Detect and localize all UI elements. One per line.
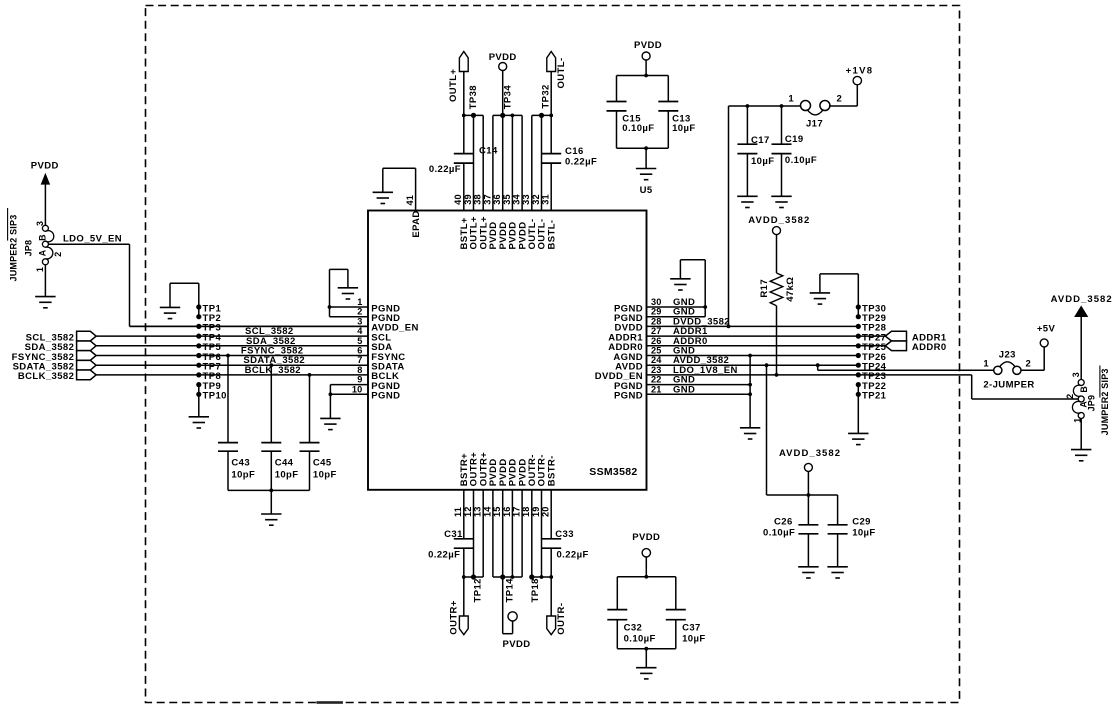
svg-text:4: 4 (357, 326, 363, 336)
svg-text:7: 7 (357, 355, 362, 365)
wire AVDD_3582 branch (765, 363, 838, 497)
svg-text:PVDD: PVDD (489, 52, 517, 63)
test point TP38 (468, 85, 479, 118)
test point TP32 (539, 84, 552, 118)
capacitor C43 10pF (218, 354, 255, 491)
ground U5 (636, 148, 656, 196)
U1 pin 19 OUTR- (531, 454, 548, 577)
svg-text:40: 40 (453, 194, 463, 205)
power PVDD (top, pin 36) (489, 52, 517, 116)
power AVDD_3582 (C26 block) (779, 448, 841, 495)
jumper JP9 JUMPER2 SIP3 (1065, 366, 1110, 436)
wire OUTR+ bus (pins 11,12,13) (462, 575, 483, 579)
connector input SDA_3582 (25, 341, 96, 353)
svg-text:C31: C31 (444, 529, 463, 540)
svg-text:SSM3582: SSM3582 (589, 466, 637, 478)
wire PVDD bus (pins 14-17) (493, 575, 522, 579)
svg-text:28: 28 (651, 316, 662, 326)
svg-text:10pF: 10pF (231, 469, 255, 480)
test point TP23 (856, 371, 887, 382)
wire C43-C45 ground bus (228, 489, 310, 526)
svg-text:LDO_5V_EN: LDO_5V_EN (63, 233, 122, 244)
power +1V8 (829, 66, 873, 107)
svg-text:41: 41 (405, 195, 415, 206)
U1 pin 17 PVDD (512, 458, 529, 577)
svg-text:9: 9 (357, 375, 362, 385)
U1 pin 8 BCLK (96, 365, 399, 382)
connector ADDR0 (885, 341, 946, 353)
svg-text:OUTL+: OUTL+ (448, 69, 459, 102)
svg-text:EPAD: EPAD (411, 210, 422, 237)
U1 pin 3 AVDD_EN (130, 316, 419, 333)
svg-text:U5: U5 (640, 185, 653, 196)
U1 pin 18 OUTR- (521, 454, 538, 577)
svg-text:2: 2 (1026, 359, 1032, 370)
svg-text:PVDD: PVDD (632, 532, 660, 543)
svg-text:29: 29 (651, 307, 662, 317)
svg-text:12: 12 (463, 506, 473, 517)
U1 pin 38 OUTL+ (473, 115, 490, 249)
wire AVDD to J23 (816, 363, 994, 370)
svg-text:8: 8 (357, 365, 362, 375)
capacitor C33 (541, 529, 588, 561)
svg-text:23: 23 (651, 365, 662, 375)
svg-text:TP38: TP38 (468, 85, 479, 109)
U1 pin 13 OUTR+ (473, 452, 490, 577)
svg-text:18: 18 (521, 506, 531, 517)
ground JP9 pin1 (1071, 419, 1091, 461)
ground C32 block (636, 649, 656, 679)
capacitor C29 10uF (827, 495, 875, 578)
U1 pin 23 DVDD_EN / net LDO_1V8_EN (595, 365, 972, 382)
svg-text:PGND: PGND (614, 391, 643, 402)
power PVDD (U5 block) (634, 40, 662, 76)
svg-text:34: 34 (512, 193, 522, 204)
svg-text:OUTL-: OUTL- (556, 57, 567, 88)
svg-text:25: 25 (651, 346, 662, 356)
U1 pin 39 OUTL+ (463, 115, 480, 249)
svg-text:TP14: TP14 (505, 578, 516, 603)
wire LDO_5V_EN JP8 to pin3 (48, 244, 368, 326)
wire OUTL- bus (pins 33,32,31) (532, 114, 553, 118)
svg-text:B: B (1079, 386, 1089, 393)
svg-text:14: 14 (482, 506, 492, 517)
ground bracket pins 9,10 PGND (320, 385, 340, 430)
svg-text:C37: C37 (682, 623, 701, 634)
svg-text:2: 2 (357, 307, 362, 317)
connector input SDATA_3582 (13, 360, 97, 372)
U1 pin 12 OUTR+ (463, 452, 480, 577)
svg-text:19: 19 (531, 506, 541, 517)
test point TP18 (529, 574, 541, 602)
figure number on bottom border (316, 701, 343, 704)
U1 pin 34 PVDD (512, 115, 529, 249)
U1 pin 1 PGND (330, 297, 401, 314)
svg-text:BSTL-: BSTL- (546, 220, 557, 250)
power AVDD_3582 (JP9 arrow) (1051, 294, 1113, 380)
test point TP34 (500, 85, 513, 118)
U1 pin 41 EPAD (405, 168, 422, 237)
U1 pin 10 PGND (330, 384, 400, 401)
test point TP6 (196, 352, 221, 363)
power AVDD_3582 (R17 top) (748, 215, 810, 273)
ground bracket pins 29,30 GND (670, 260, 707, 317)
svg-text:1: 1 (983, 359, 989, 370)
U1 pin 26 ADDR0 / net ADDR0 (608, 336, 885, 353)
svg-text:32: 32 (531, 194, 541, 205)
U1 pin 9 PGND (330, 375, 400, 392)
svg-text:J23: J23 (999, 350, 1016, 361)
svg-text:15: 15 (492, 506, 502, 517)
EPAD ground (373, 168, 416, 203)
svg-text:C43: C43 (231, 458, 250, 469)
svg-text:PVDD: PVDD (634, 40, 662, 51)
U1 pin 2 PGND (330, 307, 401, 324)
U1 pin 36 PVDD (492, 115, 509, 249)
ground bracket for TP1/TP2 (160, 283, 199, 318)
svg-text:ADDR0: ADDR0 (912, 342, 947, 353)
svg-text:38: 38 (473, 194, 483, 205)
svg-text:36: 36 (492, 194, 502, 205)
svg-text:1: 1 (357, 297, 362, 307)
svg-text:0.22µF: 0.22µF (429, 164, 461, 175)
wire TP9-TP10 link and ground (189, 385, 209, 428)
U1 pin 24 AVDD / net AVDD_3582 (615, 355, 858, 372)
capacitor C45 10pF (300, 373, 337, 490)
connector input FSYNC_3582 (12, 351, 96, 363)
connector ADDR1 (885, 331, 947, 343)
svg-text:GND: GND (673, 384, 695, 395)
jumper JP8 JUMPER2 SIP3 (8, 208, 63, 282)
connector input SCL_3582 (26, 331, 96, 343)
U1 pin 21 PGND / net GND (614, 384, 750, 401)
svg-text:0.22µF: 0.22µF (557, 550, 589, 561)
capacitor C44 10pF (261, 363, 298, 490)
test point TP1 (196, 303, 221, 314)
wire OUTL+ bus (pins 40,39,38) (462, 114, 483, 118)
svg-text:C26: C26 (774, 516, 793, 527)
test point TP10 (196, 391, 227, 402)
capacitor C37 10uF (666, 577, 706, 649)
svg-text:10µF: 10µF (751, 156, 774, 167)
svg-text:JP9: JP9 (1086, 395, 1096, 412)
svg-text:10pF: 10pF (313, 469, 337, 480)
capacitor C17 10uF (737, 104, 774, 207)
U1 pin 37 PVDD (482, 115, 499, 249)
svg-text:16: 16 (502, 506, 512, 517)
svg-text:1: 1 (35, 267, 45, 272)
svg-text:5: 5 (357, 336, 362, 346)
wire C32/C37 buses (617, 575, 676, 651)
jumper J23 2-JUMPER (983, 350, 1034, 391)
svg-text:+5V: +5V (1037, 324, 1056, 335)
svg-text:A: A (38, 249, 48, 256)
svg-text:JP8: JP8 (24, 240, 34, 257)
svg-text:0.10µF: 0.10µF (763, 528, 795, 539)
svg-text:39: 39 (463, 194, 473, 205)
svg-text:PVDD: PVDD (503, 639, 531, 650)
svg-text:22: 22 (651, 375, 662, 385)
svg-text:13: 13 (473, 506, 483, 517)
svg-text:JUMPER2 SIP3: JUMPER2 SIP3 (1100, 368, 1110, 435)
svg-text:6: 6 (357, 346, 362, 356)
svg-text:17: 17 (512, 506, 522, 517)
svg-text:C16: C16 (565, 146, 584, 157)
svg-text:J17: J17 (806, 119, 823, 130)
svg-text:PGND: PGND (371, 391, 400, 402)
svg-text:37: 37 (482, 194, 492, 205)
test point TP27 (856, 332, 887, 343)
svg-text:33: 33 (521, 194, 531, 205)
svg-text:2: 2 (1065, 393, 1075, 398)
svg-text:20: 20 (541, 506, 551, 517)
wire TP30-TP29 link (857, 307, 859, 317)
power PVDD (C32 block) (632, 532, 660, 577)
svg-text:C14: C14 (479, 146, 498, 157)
svg-text:C45: C45 (313, 458, 332, 469)
test point TP12 (471, 574, 484, 602)
wire PVDD bus (pins 37-34) (493, 114, 522, 118)
svg-text:26: 26 (651, 336, 662, 346)
connector input BCLK_3582 (18, 370, 96, 382)
svg-text:31: 31 (541, 194, 551, 205)
connector OUTL- (547, 52, 567, 116)
svg-text:0.10µF: 0.10µF (785, 155, 817, 166)
test point TP3 (196, 323, 221, 334)
svg-text:+1V8: +1V8 (846, 66, 874, 77)
svg-text:3: 3 (1071, 372, 1081, 377)
U1 pin 33 OUTL- (521, 115, 538, 249)
U1 pin 27 ADDR1 / net ADDR1 (608, 326, 885, 343)
test point TP9 (196, 381, 221, 392)
test point TP4 (196, 332, 221, 343)
connector OUTR+ (449, 577, 469, 635)
svg-text:JUMPER2 SIP3: JUMPER2 SIP3 (8, 215, 18, 282)
svg-text:1: 1 (788, 94, 794, 105)
wire U5 buses (617, 74, 669, 151)
svg-text:BCLK_3582: BCLK_3582 (18, 371, 74, 382)
svg-text:AVDD_3582: AVDD_3582 (748, 215, 810, 226)
test point TP8 (196, 371, 221, 382)
capacitor C15 0.10uF (607, 76, 655, 149)
svg-text:TP34: TP34 (502, 85, 513, 110)
resistor R17 47k (759, 273, 796, 377)
svg-text:24: 24 (651, 355, 662, 365)
U1 pin 11 BSTR+ (453, 453, 470, 577)
U1 pin 4 SCL (96, 326, 392, 343)
capacitor C13 10uF (658, 76, 695, 149)
svg-text:TP10: TP10 (203, 391, 227, 402)
dashed border frame (146, 6, 960, 703)
svg-text:11: 11 (453, 507, 463, 517)
svg-text:0.22µF: 0.22µF (565, 157, 597, 168)
capacitor C19 0.10uF (771, 104, 817, 207)
svg-text:TP12: TP12 (473, 578, 484, 602)
svg-text:3: 3 (357, 316, 362, 326)
svg-text:AVDD_3582: AVDD_3582 (779, 448, 841, 459)
wire OUTR- bus (pins 18,19,20) (532, 575, 553, 579)
wire DVDD_3582 vertical (pin 28 to C17/C19/J17) (727, 106, 802, 328)
U1 pin 35 PVDD (502, 115, 519, 249)
test point TP2 (196, 313, 221, 324)
svg-text:BCLK_3582: BCLK_3582 (245, 365, 301, 376)
U1 pin 14 PVDD (482, 458, 499, 577)
op-amp U1 SSM3582 body (368, 211, 647, 490)
svg-text:C19: C19 (785, 134, 804, 145)
ground JP8 pin1 (35, 265, 55, 308)
svg-text:21: 21 (651, 384, 662, 394)
test point TP7 (196, 362, 221, 373)
U1 pin 15 PVDD (492, 458, 509, 577)
svg-text:BSTR-: BSTR- (546, 455, 557, 486)
test point TP21 (856, 391, 887, 402)
svg-text:47kΩ: 47kΩ (785, 277, 796, 302)
U1 pin 31 BSTL- (541, 115, 558, 249)
wire TP22-TP21 link and ground (848, 385, 868, 445)
svg-text:OUTR-: OUTR- (556, 603, 567, 635)
U1 pin 29 PGND / net GND (614, 307, 705, 324)
svg-text:10µF: 10µF (852, 528, 875, 539)
U1 pin 30 PGND / net GND (614, 297, 705, 314)
test point TP26 (856, 352, 887, 363)
power PVDD (bottom hook) (503, 577, 531, 650)
capacitor C26 0.10uF (763, 495, 819, 578)
svg-text:0.10µF: 0.10µF (622, 123, 654, 134)
U1 pin 32 OUTL- (531, 115, 548, 249)
test point TP25 (856, 342, 887, 353)
capacitor C31 (428, 529, 474, 561)
svg-text:PVDD: PVDD (31, 161, 59, 172)
U1 pin 22 PGND / net GND (614, 375, 750, 392)
U1 pin 6 FSYNC (96, 346, 406, 363)
test point TP28 (856, 323, 887, 334)
svg-text:10: 10 (352, 384, 363, 394)
U1 pin 7 SDATA (96, 355, 405, 372)
svg-text:AVDD_3582: AVDD_3582 (1051, 294, 1113, 305)
jumper J17 (788, 94, 842, 130)
svg-text:2-JUMPER: 2-JUMPER (983, 380, 1034, 391)
U1 pin 16 PVDD (502, 458, 519, 577)
svg-text:3: 3 (35, 221, 45, 226)
U1 pin 20 BSTR- (541, 455, 558, 577)
capacitor C14 (429, 146, 498, 175)
svg-text:TP18: TP18 (530, 578, 541, 602)
power PVDD (JP8 arrow) (31, 161, 59, 226)
U1 pin 5 SDA (96, 336, 393, 353)
test point TP29 (856, 313, 887, 324)
svg-text:TP32: TP32 (540, 84, 551, 108)
svg-text:10pF: 10pF (275, 469, 299, 480)
ground bracket for TP30 (810, 274, 859, 307)
svg-text:OUTR+: OUTR+ (449, 600, 460, 635)
test point TP22 (856, 381, 887, 392)
svg-text:C32: C32 (624, 623, 643, 634)
U1 pin 40 BSTL+ (453, 115, 470, 249)
svg-text:2: 2 (53, 252, 63, 257)
svg-text:10µF: 10µF (672, 123, 695, 134)
svg-text:35: 35 (502, 194, 512, 205)
svg-text:TP21: TP21 (862, 391, 887, 402)
capacitor C16 (541, 146, 597, 168)
svg-text:C17: C17 (751, 135, 770, 146)
svg-text:30: 30 (651, 297, 662, 307)
test point TP24 (856, 362, 887, 373)
capacitor C32 0.10uF (607, 577, 655, 649)
wire GND collector vertical (740, 354, 760, 439)
test point TP30 (856, 303, 887, 314)
svg-text:C29: C29 (852, 516, 871, 527)
svg-text:C33: C33 (555, 529, 574, 540)
U1 pin 25 AGND / net GND (613, 346, 858, 363)
ground bracket pins 1,2 PGND (328, 269, 359, 316)
connector OUTL+ (448, 52, 468, 116)
connector OUTR- (547, 577, 567, 635)
svg-text:2: 2 (837, 94, 843, 105)
svg-text:C44: C44 (275, 458, 294, 469)
power +5V (1021, 324, 1055, 371)
svg-text:0.22µF: 0.22µF (428, 550, 460, 561)
test point TP14 (500, 574, 515, 602)
svg-text:27: 27 (651, 326, 662, 336)
svg-text:R17: R17 (759, 279, 770, 298)
svg-text:10µF: 10µF (682, 634, 705, 645)
wire LDO_1V8_EN to JP9 (972, 375, 1078, 399)
svg-text:0.10µF: 0.10µF (624, 634, 656, 645)
test point TP5 (196, 342, 221, 353)
U1 pin 28 DVDD / net DVDD_3582 (614, 316, 858, 333)
svg-text:B: B (38, 234, 48, 241)
